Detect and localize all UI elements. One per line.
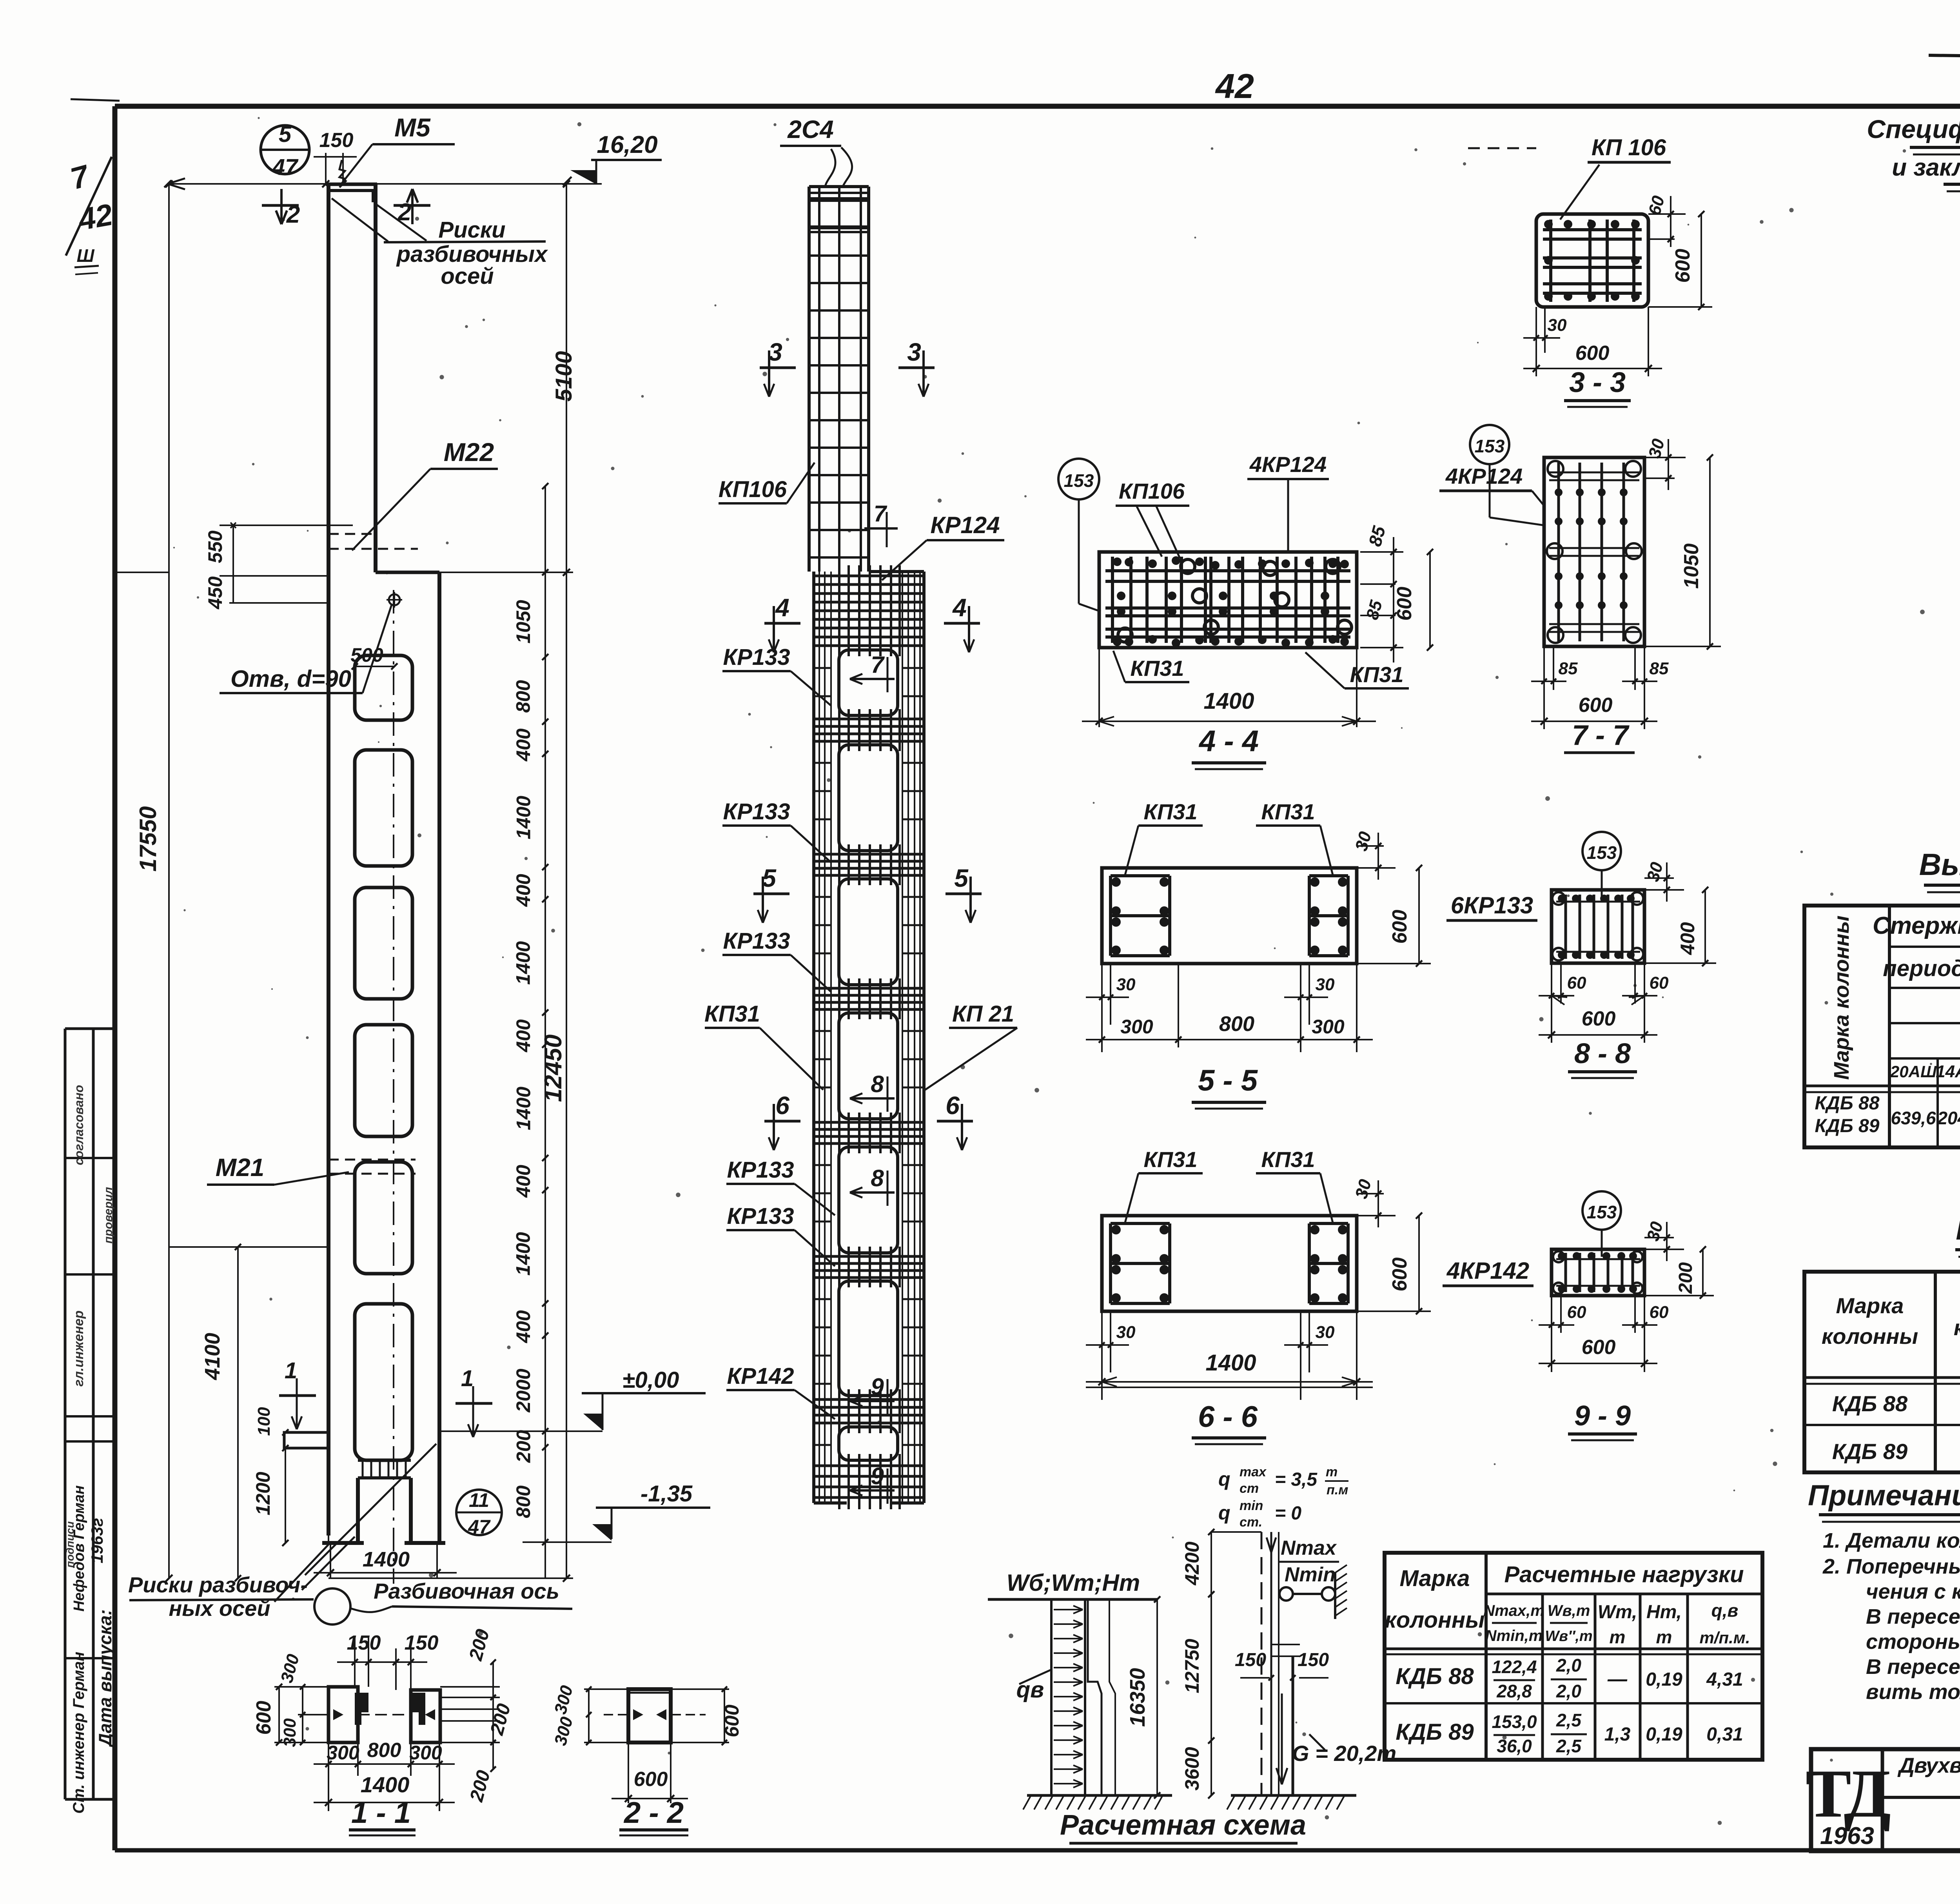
svg-text:1400: 1400 bbox=[1203, 688, 1254, 714]
svg-text:400: 400 bbox=[512, 1019, 534, 1053]
svg-text:Риски: Риски bbox=[438, 217, 505, 243]
svg-text:800: 800 bbox=[512, 680, 534, 713]
svg-text:600: 600 bbox=[1575, 342, 1610, 365]
svg-text:ТД: ТД bbox=[1806, 1755, 1891, 1831]
svg-text:Ш: Ш bbox=[76, 245, 94, 266]
svg-text:300: 300 bbox=[280, 1718, 299, 1747]
svg-text:153,0: 153,0 bbox=[1492, 1712, 1537, 1732]
svg-text:42: 42 bbox=[75, 197, 115, 237]
svg-text:122,4: 122,4 bbox=[1492, 1657, 1537, 1677]
svg-text:1400: 1400 bbox=[513, 796, 535, 839]
svg-text:Разбивочная ось: Разбивочная ось bbox=[374, 1579, 559, 1603]
svg-text:1400: 1400 bbox=[512, 941, 534, 985]
svg-text:осей: осей bbox=[441, 263, 494, 289]
svg-text:Марка колонны: Марка колонны bbox=[1830, 915, 1853, 1080]
svg-text:600: 600 bbox=[1393, 587, 1416, 621]
svg-text:Wб;Wт;Нт: Wб;Wт;Нт bbox=[1007, 1570, 1140, 1596]
svg-text:подписи: подписи bbox=[64, 1521, 76, 1568]
svg-text:4: 4 bbox=[952, 594, 967, 622]
svg-text:М5: М5 bbox=[394, 113, 431, 142]
svg-text:200: 200 bbox=[513, 1430, 535, 1463]
svg-text:КР124: КР124 bbox=[930, 512, 1000, 538]
svg-text:Wв″,т: Wв″,т bbox=[1545, 1628, 1592, 1644]
svg-text:q: q bbox=[1218, 1468, 1230, 1490]
svg-text:1400: 1400 bbox=[361, 1772, 410, 1797]
svg-text:Стержневая арматура по ГОС: Стержневая арматура по ГОСТ 5781-61 bbox=[1873, 912, 1960, 939]
svg-text:600: 600 bbox=[1582, 1007, 1616, 1030]
svg-text:1: 1 bbox=[461, 1366, 474, 1391]
svg-text:36,0: 36,0 bbox=[1497, 1736, 1532, 1756]
svg-text:2: 2 bbox=[286, 201, 300, 228]
svg-text:Риски разбивоч-: Риски разбивоч- bbox=[128, 1572, 308, 1597]
svg-text:150: 150 bbox=[1298, 1650, 1329, 1670]
svg-text:150: 150 bbox=[347, 1632, 381, 1654]
svg-text:400: 400 bbox=[1677, 922, 1699, 955]
svg-text:9 - 9: 9 - 9 bbox=[1574, 1400, 1631, 1432]
svg-text:= 0: = 0 bbox=[1275, 1503, 1301, 1524]
svg-text:4200: 4200 bbox=[1181, 1541, 1203, 1585]
svg-text:Nmax: Nmax bbox=[1281, 1537, 1337, 1559]
svg-text:В пересечении ветвей с вер: В пересечении ветвей с верхней и нижней … bbox=[1866, 1655, 1960, 1679]
svg-text:КП31: КП31 bbox=[1261, 1147, 1315, 1172]
svg-text:600: 600 bbox=[1671, 249, 1694, 283]
svg-text:ст: ст bbox=[1240, 1481, 1259, 1496]
svg-text:153: 153 bbox=[1064, 470, 1094, 491]
svg-text:6 - 6: 6 - 6 bbox=[1198, 1400, 1258, 1434]
svg-text:4КР124: 4КР124 bbox=[1249, 452, 1327, 477]
svg-text:КР133: КР133 bbox=[723, 644, 790, 670]
svg-text:200: 200 bbox=[1675, 1262, 1696, 1294]
svg-text:G = 20,2т: G = 20,2т bbox=[1292, 1741, 1396, 1766]
svg-text:4100: 4100 bbox=[201, 1333, 224, 1380]
svg-text:1400: 1400 bbox=[512, 1232, 534, 1276]
svg-text:колонны: колонны bbox=[1954, 1315, 1960, 1340]
svg-text:8: 8 bbox=[871, 1165, 884, 1191]
svg-text:5 - 5: 5 - 5 bbox=[1198, 1064, 1258, 1097]
svg-text:400: 400 bbox=[512, 1310, 534, 1343]
svg-text:2,5: 2,5 bbox=[1556, 1710, 1582, 1730]
svg-text:2,5: 2,5 bbox=[1556, 1736, 1582, 1756]
svg-text:7: 7 bbox=[874, 501, 887, 526]
svg-text:чения с каркасами перемыч: чения с каркасами перемычек . bbox=[1866, 1580, 1960, 1603]
svg-text:Wт,: Wт, bbox=[1598, 1602, 1637, 1623]
svg-text:7 - 7: 7 - 7 bbox=[1572, 720, 1630, 751]
svg-text:300: 300 bbox=[1120, 1016, 1153, 1038]
svg-text:400: 400 bbox=[512, 1165, 534, 1198]
svg-text:КДБ 88: КДБ 88 bbox=[1832, 1391, 1908, 1416]
svg-text:300: 300 bbox=[327, 1742, 359, 1764]
svg-text:проверил: проверил bbox=[102, 1187, 115, 1243]
svg-text:1963: 1963 bbox=[1820, 1822, 1874, 1850]
svg-text:Показатели на одну колонну: Показатели на одну колонну bbox=[1956, 1212, 1960, 1246]
svg-text:8 - 8: 8 - 8 bbox=[1574, 1038, 1631, 1069]
svg-text:30: 30 bbox=[1316, 975, 1335, 994]
svg-text:400: 400 bbox=[512, 874, 534, 907]
svg-text:4,31: 4,31 bbox=[1706, 1669, 1743, 1690]
svg-text:600: 600 bbox=[721, 1704, 743, 1737]
svg-text:30: 30 bbox=[1116, 1323, 1136, 1342]
svg-text:КП31: КП31 bbox=[704, 1001, 760, 1027]
svg-text:qв: qв bbox=[1016, 1677, 1044, 1703]
svg-text:стороны по три дополнител: стороны по три дополнительные шпильки . … bbox=[1866, 1630, 1960, 1654]
svg-text:30: 30 bbox=[1316, 1323, 1335, 1342]
svg-text:9: 9 bbox=[871, 1463, 884, 1489]
svg-text:600: 600 bbox=[1579, 694, 1613, 717]
svg-text:0,19: 0,19 bbox=[1646, 1669, 1682, 1690]
svg-text:153: 153 bbox=[1587, 842, 1617, 863]
svg-text:1963г: 1963г bbox=[88, 1518, 106, 1563]
svg-text:3: 3 bbox=[768, 338, 782, 366]
svg-text:0,19: 0,19 bbox=[1646, 1724, 1682, 1745]
svg-text:Дата выпуска:: Дата выпуска: bbox=[95, 1609, 115, 1748]
svg-text:min: min bbox=[1240, 1498, 1263, 1513]
svg-text:153: 153 bbox=[1475, 436, 1505, 456]
svg-text:max: max bbox=[1240, 1465, 1267, 1479]
svg-text:4КР142: 4КР142 bbox=[1446, 1258, 1529, 1284]
svg-text:2С4: 2С4 bbox=[787, 115, 833, 143]
svg-text:2000: 2000 bbox=[512, 1369, 534, 1412]
svg-text:1050: 1050 bbox=[1680, 543, 1703, 589]
svg-text:47: 47 bbox=[468, 1516, 491, 1538]
svg-text:20АШ: 20АШ bbox=[1890, 1062, 1937, 1081]
svg-text:КДБ 89: КДБ 89 bbox=[1815, 1116, 1880, 1136]
svg-text:КП31: КП31 bbox=[1261, 799, 1315, 824]
svg-text:17550: 17550 bbox=[135, 806, 161, 872]
svg-text:600: 600 bbox=[252, 1701, 275, 1735]
svg-text:Примечания:: Примечания: bbox=[1808, 1479, 1960, 1512]
svg-text:2. Поперечные стержни ка: 2. Поперечные стержни каркасов ветвей вы… bbox=[1822, 1555, 1960, 1578]
svg-text:и закладных элементов на о: и закладных элементов на одну колонну bbox=[1892, 154, 1960, 181]
svg-text:16350: 16350 bbox=[1126, 1668, 1149, 1727]
svg-text:60: 60 bbox=[1650, 973, 1669, 993]
svg-text:450: 450 bbox=[204, 576, 226, 610]
svg-text:153: 153 bbox=[1587, 1202, 1617, 1222]
svg-text:60: 60 bbox=[1567, 973, 1586, 993]
svg-text:1400: 1400 bbox=[513, 1087, 535, 1130]
svg-text:12450: 12450 bbox=[540, 1035, 567, 1102]
svg-text:т: т bbox=[1326, 1465, 1338, 1479]
svg-text:= 3,5: = 3,5 bbox=[1275, 1469, 1318, 1490]
svg-text:1200: 1200 bbox=[252, 1472, 274, 1515]
svg-text:Отв, d=90: Отв, d=90 bbox=[230, 666, 351, 692]
svg-text:60: 60 bbox=[1650, 1303, 1669, 1322]
svg-text:КР142: КР142 bbox=[727, 1363, 794, 1389]
svg-text:колонны: колонны bbox=[1385, 1607, 1485, 1633]
svg-text:КП 106: КП 106 bbox=[1592, 135, 1666, 160]
svg-text:±0,00: ±0,00 bbox=[622, 1367, 679, 1393]
svg-text:6КР133: 6КР133 bbox=[1451, 892, 1533, 918]
svg-text:Ст. инженер Герман: Ст. инженер Герман bbox=[70, 1652, 87, 1813]
svg-text:КП106: КП106 bbox=[1119, 479, 1185, 503]
svg-text:КП31: КП31 bbox=[1144, 799, 1198, 824]
svg-text:4КР124: 4КР124 bbox=[1445, 464, 1523, 488]
svg-text:5: 5 bbox=[762, 864, 777, 892]
svg-text:16,20: 16,20 bbox=[597, 131, 657, 158]
svg-text:3600: 3600 bbox=[1181, 1747, 1203, 1790]
svg-text:12750: 12750 bbox=[1181, 1639, 1203, 1693]
svg-text:150: 150 bbox=[405, 1632, 439, 1654]
svg-text:КП31: КП31 bbox=[1144, 1147, 1198, 1172]
svg-text:60: 60 bbox=[1567, 1303, 1586, 1322]
svg-text:2,0: 2,0 bbox=[1556, 1681, 1581, 1701]
svg-text:Nmin: Nmin bbox=[1285, 1563, 1336, 1586]
svg-text:1: 1 bbox=[285, 1358, 297, 1383]
svg-text:1 - 1: 1 - 1 bbox=[351, 1796, 411, 1830]
svg-text:9: 9 bbox=[871, 1374, 884, 1400]
svg-text:4 - 4: 4 - 4 bbox=[1198, 724, 1259, 758]
svg-text:колонны: колонны bbox=[1822, 1324, 1918, 1349]
svg-text:600: 600 bbox=[1582, 1336, 1616, 1359]
svg-text:6: 6 bbox=[946, 1091, 960, 1120]
svg-text:-1,35: -1,35 bbox=[641, 1481, 693, 1507]
svg-text:согласовано: согласовано bbox=[72, 1085, 86, 1165]
svg-text:30: 30 bbox=[1116, 975, 1136, 994]
svg-text:КР133: КР133 bbox=[723, 799, 790, 824]
svg-text:4: 4 bbox=[775, 594, 789, 622]
svg-text:Нт,: Нт, bbox=[1646, 1602, 1682, 1623]
svg-text:0,31: 0,31 bbox=[1706, 1724, 1743, 1745]
svg-text:Wв,т: Wв,т bbox=[1548, 1602, 1590, 1619]
svg-text:Спецификация марок арматурны: Спецификация марок арматурных изделий bbox=[1867, 114, 1960, 143]
svg-text:КП31: КП31 bbox=[1131, 656, 1184, 681]
svg-text:КДБ 89: КДБ 89 bbox=[1396, 1719, 1474, 1745]
svg-text:КР133: КР133 bbox=[727, 1203, 794, 1229]
svg-text:—: — bbox=[1607, 1668, 1628, 1690]
svg-text:Nmax,т: Nmax,т bbox=[1483, 1602, 1544, 1619]
svg-text:1400: 1400 bbox=[363, 1548, 410, 1571]
svg-text:5: 5 bbox=[279, 122, 292, 147]
svg-text:КР133: КР133 bbox=[727, 1157, 794, 1183]
svg-text:q,в: q,в bbox=[1711, 1600, 1739, 1621]
svg-text:КП 21: КП 21 bbox=[952, 1001, 1014, 1027]
svg-text:q: q bbox=[1218, 1502, 1230, 1524]
svg-text:400: 400 bbox=[512, 728, 534, 762]
svg-text:КДБ 89: КДБ 89 bbox=[1832, 1439, 1907, 1464]
svg-text:Расчетная схема: Расчетная схема bbox=[1060, 1810, 1306, 1841]
svg-text:п.м: п.м bbox=[1327, 1483, 1348, 1497]
svg-text:КР133: КР133 bbox=[723, 928, 790, 954]
svg-text:30: 30 bbox=[1548, 316, 1567, 335]
svg-text:6: 6 bbox=[775, 1091, 789, 1120]
svg-text:1,3: 1,3 bbox=[1604, 1724, 1631, 1745]
svg-text:5: 5 bbox=[954, 864, 969, 892]
svg-text:47: 47 bbox=[272, 154, 299, 180]
svg-text:КДБ 88: КДБ 88 bbox=[1396, 1664, 1474, 1689]
svg-text:85: 85 bbox=[1650, 659, 1669, 678]
svg-text:11: 11 bbox=[469, 1489, 489, 1511]
svg-text:т: т bbox=[1610, 1627, 1626, 1647]
svg-text:300: 300 bbox=[409, 1742, 442, 1764]
svg-text:ст.: ст. bbox=[1240, 1515, 1262, 1530]
svg-text:600: 600 bbox=[1388, 910, 1411, 944]
svg-text:800: 800 bbox=[367, 1739, 401, 1762]
svg-text:М21: М21 bbox=[216, 1153, 265, 1182]
svg-text:вить только взамен вырез: вить только взамен вырезанных стержней к… bbox=[1866, 1680, 1960, 1704]
svg-text:2 - 2: 2 - 2 bbox=[623, 1796, 684, 1830]
svg-text:800: 800 bbox=[1219, 1012, 1254, 1036]
svg-text:204,6: 204,6 bbox=[1937, 1108, 1960, 1128]
svg-text:Двухветвевые колонны одноэта: Двухветвевые колонны одноэтажных бескран… bbox=[1897, 1753, 1960, 1777]
svg-text:Марка: Марка bbox=[1836, 1293, 1904, 1318]
svg-text:периодического профиля: периодического профиля bbox=[1883, 956, 1960, 981]
svg-text:600: 600 bbox=[1388, 1258, 1411, 1292]
svg-text:300: 300 bbox=[1312, 1016, 1345, 1038]
svg-text:28,8: 28,8 bbox=[1496, 1681, 1532, 1701]
svg-text:800: 800 bbox=[512, 1485, 534, 1518]
svg-text:3: 3 bbox=[907, 338, 921, 366]
svg-text:т/п.м.: т/п.м. bbox=[1699, 1628, 1750, 1647]
svg-text:1. Детали колонн см.: 1. Детали колонн см. листы 47, 48 и 49. bbox=[1823, 1529, 1960, 1552]
svg-text:100: 100 bbox=[254, 1407, 274, 1436]
svg-text:КДБ 88: КДБ 88 bbox=[1815, 1093, 1880, 1114]
svg-text:Расчетные нагрузки: Расчетные нагрузки bbox=[1504, 1562, 1744, 1587]
svg-text:150: 150 bbox=[319, 129, 354, 152]
svg-text:т: т bbox=[1656, 1627, 1672, 1647]
svg-text:600: 600 bbox=[634, 1768, 668, 1791]
svg-text:7: 7 bbox=[871, 652, 885, 678]
svg-text:2,0: 2,0 bbox=[1556, 1655, 1581, 1675]
svg-text:42: 42 bbox=[1215, 67, 1254, 105]
svg-text:ных осей: ных осей bbox=[169, 1596, 270, 1621]
svg-text:550: 550 bbox=[204, 530, 226, 563]
svg-text:150: 150 bbox=[1235, 1650, 1266, 1670]
svg-text:1050: 1050 bbox=[512, 600, 534, 643]
svg-text:8: 8 bbox=[871, 1071, 884, 1097]
svg-text:КП106: КП106 bbox=[719, 477, 787, 502]
svg-text:Nmin,т: Nmin,т bbox=[1485, 1627, 1543, 1644]
svg-text:В пересечениях ветвей с ря: В пересечениях ветвей с рядовыми перемыч… bbox=[1866, 1605, 1960, 1628]
svg-text:гл.инженер: гл.инженер bbox=[71, 1310, 86, 1387]
svg-text:1400: 1400 bbox=[1205, 1350, 1256, 1376]
svg-text:14АШ: 14АШ bbox=[1936, 1062, 1960, 1081]
svg-text:М22: М22 bbox=[444, 437, 494, 466]
svg-text:Марка: Марка bbox=[1399, 1566, 1470, 1591]
svg-text:Выборка стали на одну коло: Выборка стали на одну колонну, кг bbox=[1919, 847, 1960, 882]
svg-text:КП31: КП31 bbox=[1350, 662, 1404, 687]
svg-text:3 - 3: 3 - 3 bbox=[1569, 367, 1626, 398]
svg-text:5100: 5100 bbox=[551, 351, 577, 401]
svg-text:639,6: 639,6 bbox=[1891, 1108, 1936, 1128]
svg-text:85: 85 bbox=[1559, 659, 1578, 678]
